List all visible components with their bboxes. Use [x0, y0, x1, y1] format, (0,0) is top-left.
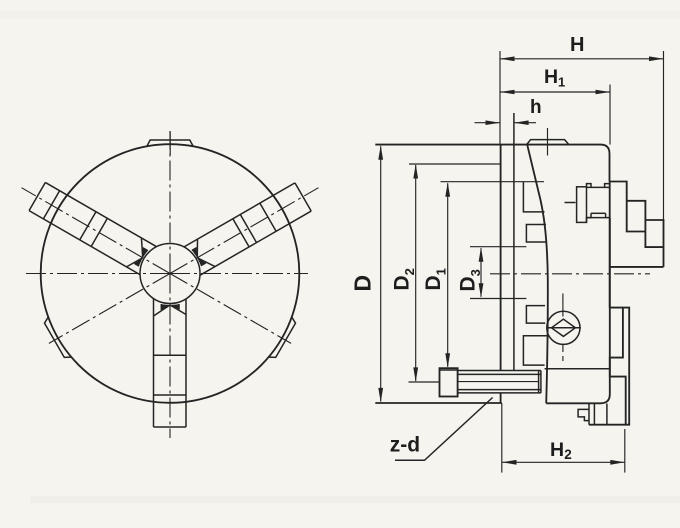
svg-text:D: D — [350, 275, 376, 292]
svg-text:H: H — [544, 66, 558, 88]
svg-text:2: 2 — [564, 447, 572, 462]
svg-text:H: H — [550, 439, 564, 461]
svg-text:h: h — [530, 97, 542, 118]
svg-text:z-d: z-d — [390, 434, 420, 457]
svg-text:1: 1 — [558, 75, 565, 90]
svg-text:H: H — [570, 34, 584, 56]
